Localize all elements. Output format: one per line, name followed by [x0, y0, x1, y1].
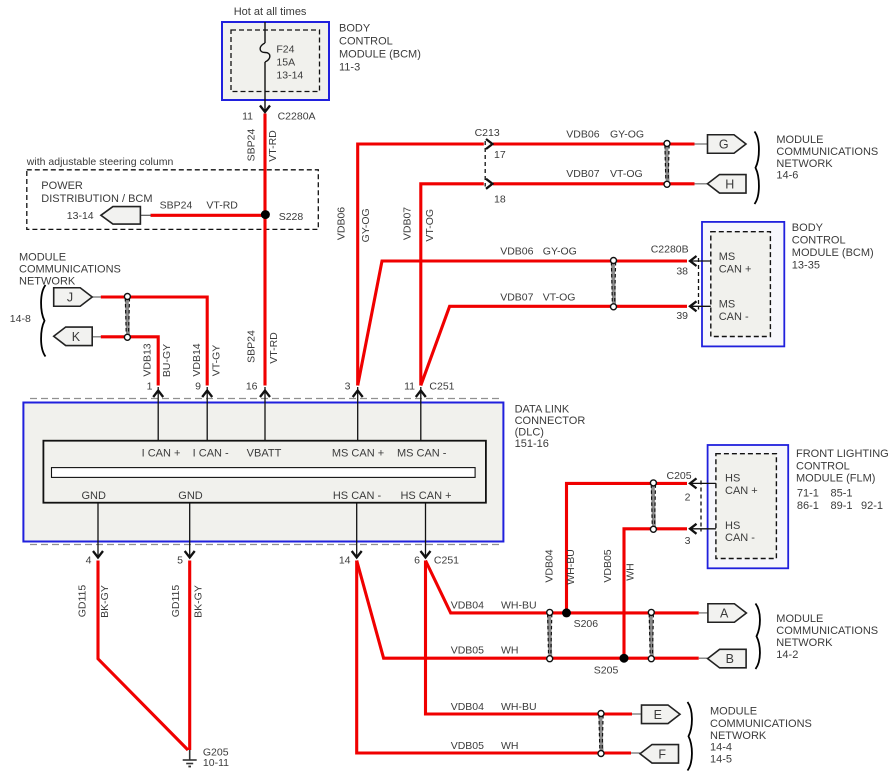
svg-text:VDB07: VDB07 — [402, 207, 414, 240]
svg-text:VDB04: VDB04 — [451, 600, 484, 612]
svg-text:H: H — [725, 177, 734, 191]
svg-text:DISTRIBUTION / BCM: DISTRIBUTION / BCM — [41, 193, 152, 205]
svg-text:WH: WH — [625, 563, 637, 581]
svg-text:J: J — [67, 291, 73, 305]
svg-text:C2280B: C2280B — [651, 244, 689, 256]
svg-text:39: 39 — [676, 310, 688, 322]
svg-text:C2280A: C2280A — [278, 111, 316, 123]
svg-text:13-14: 13-14 — [67, 210, 94, 222]
svg-text:CONTROL: CONTROL — [796, 461, 850, 473]
svg-text:3: 3 — [345, 381, 351, 393]
svg-text:VT-GY: VT-GY — [210, 345, 222, 377]
svg-text:FRONT LIGHTING: FRONT LIGHTING — [796, 448, 889, 460]
svg-text:VDB04: VDB04 — [451, 701, 484, 713]
svg-text:COMMUNICATIONS: COMMUNICATIONS — [776, 146, 878, 158]
svg-text:BU-GY: BU-GY — [161, 344, 173, 377]
svg-text:F: F — [658, 747, 666, 761]
svg-text:MS: MS — [719, 251, 736, 263]
svg-text:2: 2 — [685, 492, 691, 504]
svg-text:VT-OG: VT-OG — [543, 292, 576, 304]
svg-text:CAN +: CAN + — [719, 263, 752, 275]
svg-text:MS: MS — [719, 299, 736, 311]
svg-text:NETWORK: NETWORK — [776, 637, 833, 649]
svg-text:BODY: BODY — [792, 222, 824, 234]
svg-text:10-11: 10-11 — [203, 757, 229, 769]
svg-text:C251: C251 — [434, 555, 459, 567]
svg-text:VT-OG: VT-OG — [424, 209, 436, 242]
svg-text:VDB05: VDB05 — [451, 645, 484, 657]
svg-text:HS: HS — [725, 473, 740, 485]
svg-text:11: 11 — [242, 111, 253, 123]
svg-text:VDB05: VDB05 — [451, 740, 484, 752]
svg-text:15A: 15A — [276, 57, 295, 69]
svg-text:HS: HS — [725, 520, 740, 532]
svg-text:14-2: 14-2 — [776, 649, 798, 661]
svg-text:CONTROL: CONTROL — [339, 36, 393, 48]
svg-text:85-1: 85-1 — [831, 488, 853, 500]
svg-text:I CAN -: I CAN - — [193, 448, 229, 460]
svg-text:BODY: BODY — [339, 23, 371, 35]
svg-text:SBP24: SBP24 — [246, 129, 258, 162]
svg-text:9: 9 — [195, 381, 201, 393]
svg-text:GND: GND — [81, 490, 106, 502]
svg-text:S206: S206 — [574, 618, 599, 630]
svg-text:89-1: 89-1 — [831, 500, 853, 512]
svg-text:VDB04: VDB04 — [544, 549, 556, 582]
svg-text:MS CAN +: MS CAN + — [332, 448, 384, 460]
svg-text:14-8: 14-8 — [10, 313, 31, 325]
svg-text:COMMUNICATIONS: COMMUNICATIONS — [776, 625, 878, 637]
svg-text:VDB06: VDB06 — [500, 245, 533, 257]
svg-text:MODULE: MODULE — [710, 706, 757, 718]
svg-text:WH: WH — [501, 740, 519, 752]
svg-text:86-1: 86-1 — [797, 500, 819, 512]
svg-text:HS CAN -: HS CAN - — [333, 490, 382, 502]
svg-text:with adjustable steering colum: with adjustable steering column — [26, 156, 174, 168]
svg-text:11: 11 — [404, 381, 415, 393]
svg-text:C213: C213 — [475, 127, 500, 139]
svg-text:GND: GND — [178, 490, 203, 502]
svg-text:MS CAN -: MS CAN - — [397, 448, 447, 460]
svg-text:11-3: 11-3 — [339, 62, 360, 74]
svg-text:SBP24: SBP24 — [160, 200, 193, 212]
svg-text:WH: WH — [501, 645, 519, 657]
svg-text:13-14: 13-14 — [276, 70, 303, 82]
svg-text:VDB05: VDB05 — [602, 549, 614, 582]
svg-text:92-1: 92-1 — [861, 500, 883, 512]
svg-text:MODULE: MODULE — [776, 134, 823, 146]
svg-text:A: A — [720, 607, 729, 621]
svg-text:POWER: POWER — [41, 180, 83, 192]
svg-text:NETWORK: NETWORK — [710, 730, 767, 742]
svg-text:GY-OG: GY-OG — [610, 129, 644, 141]
svg-text:GD115: GD115 — [170, 585, 182, 618]
svg-text:HS CAN +: HS CAN + — [400, 490, 451, 502]
svg-text:I CAN +: I CAN + — [142, 448, 181, 460]
svg-text:F24: F24 — [276, 44, 294, 56]
svg-text:MODULE (BCM): MODULE (BCM) — [792, 247, 874, 259]
svg-text:GY-OG: GY-OG — [360, 208, 372, 242]
svg-text:4: 4 — [86, 555, 92, 567]
svg-text:5: 5 — [177, 555, 183, 567]
svg-text:14: 14 — [339, 555, 351, 567]
svg-text:WH-BU: WH-BU — [565, 549, 577, 585]
svg-text:VBATT: VBATT — [247, 448, 282, 460]
svg-text:S228: S228 — [279, 211, 304, 223]
svg-text:VT-RD: VT-RD — [267, 130, 279, 162]
svg-text:17: 17 — [494, 149, 506, 161]
svg-text:14-6: 14-6 — [776, 170, 798, 182]
svg-text:NETWORK: NETWORK — [19, 276, 76, 288]
svg-text:16: 16 — [246, 381, 258, 393]
svg-text:WH-BU: WH-BU — [501, 701, 537, 713]
svg-text:GD115: GD115 — [76, 585, 88, 618]
svg-text:GY-OG: GY-OG — [543, 245, 577, 257]
svg-text:18: 18 — [494, 194, 506, 206]
svg-text:NETWORK: NETWORK — [776, 158, 833, 170]
svg-text:Hot at all times: Hot at all times — [234, 6, 307, 18]
svg-text:DATA LINK: DATA LINK — [515, 404, 570, 416]
svg-text:C251: C251 — [429, 381, 454, 393]
svg-text:151-16: 151-16 — [515, 438, 549, 450]
svg-text:VDB14: VDB14 — [191, 343, 203, 376]
svg-text:VDB13: VDB13 — [141, 343, 153, 376]
svg-text:71-1: 71-1 — [797, 488, 819, 500]
svg-text:VDB07: VDB07 — [500, 292, 533, 304]
svg-text:COMMUNICATIONS: COMMUNICATIONS — [710, 718, 812, 730]
svg-text:VDB06: VDB06 — [566, 129, 599, 141]
svg-text:S205: S205 — [594, 665, 619, 677]
svg-text:WH-BU: WH-BU — [501, 600, 537, 612]
svg-text:VT-RD: VT-RD — [268, 332, 280, 364]
svg-text:14-4: 14-4 — [710, 742, 732, 754]
svg-text:MODULE: MODULE — [19, 252, 66, 264]
svg-text:13-35: 13-35 — [792, 260, 820, 272]
svg-text:E: E — [654, 708, 662, 722]
svg-text:COMMUNICATIONS: COMMUNICATIONS — [19, 264, 121, 276]
svg-text:MODULE (BCM): MODULE (BCM) — [339, 49, 421, 61]
svg-text:3: 3 — [685, 535, 691, 547]
svg-text:CAN -: CAN - — [725, 532, 755, 544]
svg-text:MODULE (FLM): MODULE (FLM) — [796, 473, 875, 485]
svg-text:MODULE: MODULE — [776, 613, 823, 625]
svg-text:6: 6 — [414, 555, 420, 567]
svg-text:B: B — [726, 652, 734, 666]
svg-text:BK-GY: BK-GY — [99, 585, 111, 618]
svg-text:CONTROL: CONTROL — [792, 235, 846, 247]
svg-text:VT-RD: VT-RD — [206, 200, 238, 212]
svg-text:CONNECTOR: CONNECTOR — [515, 415, 586, 427]
svg-text:CAN -: CAN - — [719, 311, 749, 323]
svg-text:1: 1 — [147, 381, 153, 393]
svg-text:K: K — [72, 330, 81, 344]
svg-text:14-5: 14-5 — [710, 754, 732, 766]
svg-text:C205: C205 — [667, 470, 692, 482]
svg-text:(DLC): (DLC) — [515, 427, 544, 439]
svg-text:38: 38 — [676, 266, 688, 278]
svg-text:BK-GY: BK-GY — [193, 585, 205, 618]
svg-text:SBP24: SBP24 — [245, 330, 257, 363]
svg-text:VDB06: VDB06 — [336, 207, 348, 240]
svg-text:CAN +: CAN + — [725, 485, 758, 497]
svg-text:VDB07: VDB07 — [566, 168, 599, 180]
svg-text:G: G — [719, 138, 729, 152]
svg-text:VT-OG: VT-OG — [610, 168, 643, 180]
